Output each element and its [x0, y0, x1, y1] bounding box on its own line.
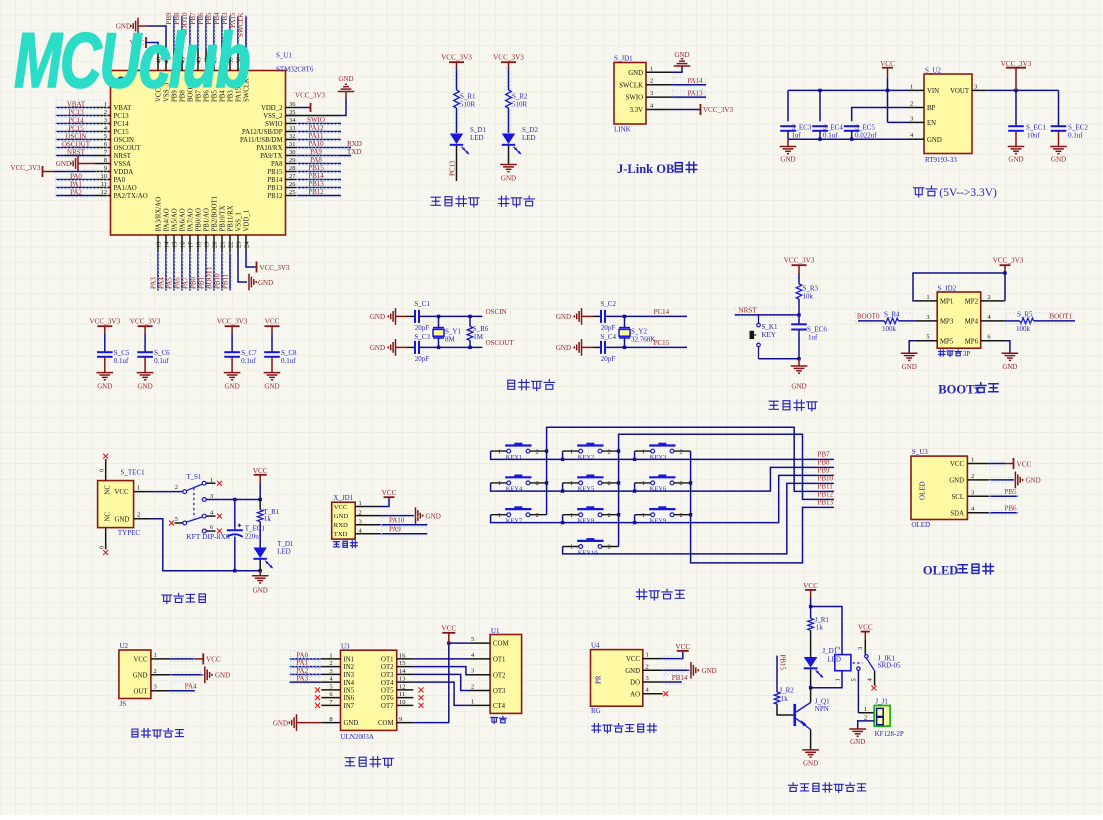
wire BOOT1: [1034, 320, 1075, 322]
wire OSCIN: [56, 139, 96, 141]
svg-text:PB12: PB12: [308, 188, 324, 196]
svg-text:13: 13: [399, 676, 406, 683]
svg-text:220uf: 220uf: [245, 533, 262, 541]
pin 8 GND: [321, 716, 358, 727]
svg-text:VDD_2: VDD_2: [261, 105, 283, 112]
svg-text:10: 10: [101, 173, 108, 180]
svg-text:2: 2: [608, 480, 611, 487]
connector X_JD1 body: [332, 502, 356, 539]
svg-text:VCC: VCC: [626, 656, 640, 663]
connector U1 body: [490, 635, 521, 714]
wire VDD_1 to power: [246, 251, 256, 267]
svg-text:2: 2: [835, 646, 842, 649]
svg-text:GND: GND: [556, 344, 571, 352]
svg-text:PB5: PB5: [1005, 488, 1018, 496]
LED T_D1: [253, 540, 294, 568]
svg-text:PB13: PB13: [818, 499, 834, 507]
svg-text:PA1/AO: PA1/AO: [114, 185, 137, 192]
svg-text:GND: GND: [1026, 477, 1041, 485]
wire PA8: [296, 163, 341, 165]
value socket: [491, 718, 498, 724]
svg-text:PA3: PA3: [150, 277, 158, 289]
svg-text:NRST: NRST: [738, 307, 757, 315]
pin 2 SWCLK: [619, 78, 672, 90]
pin 12 OT5: [381, 683, 413, 694]
svg-text:IN5: IN5: [344, 688, 355, 695]
pin 27 PB14: [267, 173, 296, 184]
svg-text:BP: BP: [927, 105, 936, 112]
svg-text:EN: EN: [927, 120, 936, 127]
wire PB0: [197, 251, 199, 291]
power flag VCC light: [675, 643, 690, 651]
svg-text:34: 34: [289, 117, 296, 124]
svg-text:GND: GND: [674, 51, 689, 59]
svg-text:PB14: PB14: [267, 177, 283, 184]
pin 2 GND: [334, 509, 381, 520]
svg-text:OT3: OT3: [493, 688, 506, 695]
pin 11 OT6: [381, 691, 413, 702]
wire row1 PB7: [491, 451, 834, 459]
svg-text:VCC: VCC: [253, 467, 268, 475]
svg-text:KEY7: KEY7: [506, 518, 523, 525]
svg-text:GND: GND: [902, 363, 917, 371]
svg-text:SWIO: SWIO: [307, 116, 325, 124]
svg-text:1k: 1k: [816, 623, 824, 631]
pin 21 PB10/TX: [220, 205, 227, 251]
svg-text:19: 19: [204, 242, 211, 249]
wire GND ir: [170, 674, 203, 676]
svg-text:BOOT1: BOOT1: [1050, 312, 1073, 320]
no-connect X switch 5: [169, 521, 174, 526]
pin 2 GND: [134, 512, 152, 519]
wire coil bottom: [811, 671, 842, 688]
svg-text:36: 36: [289, 101, 296, 108]
pin 3 OUT: [134, 684, 170, 696]
svg-text:GND: GND: [97, 382, 112, 390]
svg-text:VCC_3V3: VCC_3V3: [89, 318, 120, 326]
svg-text:OT1: OT1: [381, 657, 393, 664]
pin 1 VCC: [626, 652, 663, 664]
pin 2 OT3: [469, 684, 506, 696]
wire GND xjd1: [380, 515, 414, 517]
wire PB15 to J_R2: [776, 656, 778, 693]
svg-text:1: 1: [642, 480, 645, 487]
svg-text:MCUclub: MCUclub: [14, 17, 249, 105]
relay switch arm: [853, 655, 875, 671]
wire BP to S_EC5: [852, 108, 908, 122]
svg-text:S_TEC1: S_TEC1: [121, 469, 146, 477]
ground light: [691, 662, 717, 679]
push button KEY9: [642, 506, 683, 524]
power flag VCC oled: [1005, 458, 1031, 469]
svg-text:VCC: VCC: [265, 318, 280, 326]
svg-text:VCC: VCC: [206, 656, 221, 664]
power flag VCC_3V3 at J-Link pin 4: [701, 104, 734, 115]
push button KEY7: [498, 506, 539, 524]
resistor J_R2 1k: [774, 687, 794, 705]
svg-text:5: 5: [175, 516, 178, 523]
svg-text:LED: LED: [277, 548, 291, 556]
svg-text:RXD: RXD: [347, 140, 362, 148]
ground J_J1: [849, 729, 866, 746]
pin 0 shield top: [99, 459, 106, 481]
pin 1 VCC: [334, 500, 381, 511]
svg-text:U3: U3: [341, 643, 350, 651]
value KFT DIP-8X8: [186, 532, 230, 541]
svg-text:PA2: PA2: [70, 188, 82, 196]
pin 2 GND: [625, 663, 663, 675]
svg-text:OT7: OT7: [381, 703, 394, 710]
title programmable LED: [431, 197, 440, 205]
pin 13 PA3/RX/AO: [156, 197, 163, 251]
power flag VCC ir: [195, 653, 221, 664]
svg-text:X_JD1: X_JD1: [333, 494, 353, 502]
wire BOOT1: [213, 251, 215, 291]
pin 24 VDD_1: [244, 210, 251, 251]
wire NRST: [735, 299, 799, 324]
svg-text:COM: COM: [493, 641, 509, 648]
svg-text:NRST: NRST: [67, 148, 86, 156]
wire VCC node to T_R1: [259, 500, 261, 510]
pin 32 PA11/USB/DM: [240, 133, 296, 144]
wire VCC down: [259, 483, 261, 500]
capacitor S_EC2 0.1uf: [1051, 123, 1089, 139]
pin 4 3.3V: [630, 103, 672, 115]
IC U1 S_U1 STM32C8T6 body: [111, 71, 286, 236]
svg-text:VCC: VCC: [675, 643, 690, 651]
resistor J_R1 1k: [808, 616, 830, 631]
svg-text:IN1: IN1: [344, 657, 355, 664]
svg-text:1: 1: [650, 65, 653, 72]
power flag VCC relay: [803, 582, 818, 598]
ground under S_C5: [97, 357, 114, 391]
svg-text:GND: GND: [264, 382, 279, 390]
wire VDDA: [54, 171, 95, 173]
no-connect X IN7: [315, 703, 320, 708]
ground under S_EC1: [1008, 131, 1025, 164]
pin 41 PB5: [212, 50, 219, 102]
pin 46 PB9: [172, 50, 179, 102]
svg-text:AO: AO: [630, 691, 640, 698]
svg-text:IN2: IN2: [344, 664, 355, 671]
svg-text:PR: PR: [595, 675, 603, 684]
junction: [818, 89, 821, 92]
svg-text:OSCIN: OSCIN: [65, 132, 86, 140]
svg-text:2: 2: [471, 684, 474, 691]
svg-text:0.022uf: 0.022uf: [855, 131, 877, 139]
pin 3 IN3: [321, 668, 354, 679]
svg-text:PB14: PB14: [672, 674, 688, 682]
junction: [468, 315, 471, 318]
svg-text:PC15: PC15: [68, 124, 84, 132]
junction: [617, 449, 620, 452]
svg-text:PB14: PB14: [308, 172, 324, 180]
junction: [1003, 271, 1006, 274]
pin 1 VCC: [950, 457, 989, 469]
ground feeding S_C1: [370, 308, 407, 325]
svg-text:DO: DO: [630, 680, 640, 687]
svg-text:1: 1: [498, 480, 501, 487]
pin 20 PB2/BOOT1: [212, 196, 219, 251]
svg-text:OSCIN: OSCIN: [486, 308, 507, 316]
svg-text:VCC_3V3: VCC_3V3: [260, 264, 290, 272]
pin 4 SDA: [950, 506, 988, 518]
no-connect X switch 1: [217, 481, 222, 486]
pin 4 AO: [630, 687, 663, 699]
svg-text:S_EC3: S_EC3: [792, 123, 812, 131]
svg-text:PA0: PA0: [70, 172, 82, 180]
svg-text:PC14: PC14: [68, 116, 84, 124]
svg-text:PB2/BOOT1: PB2/BOOT1: [212, 196, 219, 232]
IC S_U2 RT9193-33 body: [924, 74, 972, 154]
wire KEY4 terminals: [491, 482, 547, 484]
svg-text:PC15: PC15: [654, 339, 670, 347]
svg-text:S_EC5: S_EC5: [855, 123, 875, 131]
wire KEY3 terminals: [635, 450, 691, 452]
svg-text:S_EC2: S_EC2: [1068, 123, 1088, 131]
svg-text:12: 12: [101, 189, 108, 196]
wire PB12: [296, 195, 341, 197]
svg-text:3.3V: 3.3V: [630, 107, 643, 114]
pin 6 MP6: [965, 334, 1005, 346]
pin 39 PB3: [228, 50, 235, 102]
wire contact pin 5 to J_J1: [851, 670, 875, 713]
connector S_JD1 J-Link: [614, 63, 646, 125]
title reset circuit: [769, 401, 778, 409]
junction: [561, 458, 564, 461]
wire VSS_2 to ground: [286, 92, 347, 116]
svg-text:COM: COM: [378, 720, 394, 727]
svg-text:5: 5: [329, 683, 332, 690]
pin 16 OT1: [381, 652, 413, 663]
junction: [561, 521, 564, 524]
svg-text:1uf: 1uf: [792, 131, 802, 139]
svg-text:GND: GND: [370, 344, 385, 352]
svg-text:3P: 3P: [963, 350, 971, 358]
wire PB14: [296, 179, 341, 181]
svg-text:2: 2: [359, 509, 362, 516]
svg-text:3: 3: [650, 90, 653, 97]
wire PA0: [290, 658, 322, 660]
wire VSS_1 to ground: [238, 251, 247, 282]
svg-text:GND: GND: [344, 720, 359, 727]
svg-text:8: 8: [104, 157, 107, 164]
wire emitter to ground: [810, 730, 812, 750]
wire PA9: [296, 155, 351, 157]
pin 33 PA12/USB/DP: [242, 125, 296, 136]
svg-text:GND: GND: [215, 672, 230, 680]
wire BOOT0: [858, 320, 884, 322]
svg-text:KFT DIP-8X8: KFT DIP-8X8: [186, 532, 230, 541]
svg-text:2: 2: [971, 473, 974, 480]
wire KEY10 row PB10: [563, 483, 834, 554]
svg-text:BOOTx: BOOTx: [938, 383, 981, 397]
svg-text:8: 8: [329, 716, 332, 723]
svg-text:VCC_3V3: VCC_3V3: [130, 318, 161, 326]
svg-text:KEY9: KEY9: [650, 518, 667, 525]
pin 6 IN6: [321, 691, 354, 702]
svg-text:GND: GND: [133, 672, 148, 679]
wire PB6: [989, 512, 1018, 514]
svg-text:SWIO: SWIO: [626, 95, 643, 102]
wire COM to VCC: [413, 643, 468, 723]
svg-text:PC14: PC14: [654, 308, 670, 316]
svg-text:GND: GND: [370, 313, 385, 321]
pin 1 VCC: [134, 652, 170, 664]
svg-text:S_Y1: S_Y1: [445, 328, 461, 336]
svg-text:IN7: IN7: [344, 703, 355, 710]
pin 4 TXD: [334, 528, 381, 539]
capacitor S_EC5 0.022uf: [844, 123, 877, 139]
svg-text:VDD_1: VDD_1: [244, 210, 251, 232]
wire OSCOUT: [56, 147, 96, 149]
wire PB7: [197, 16, 199, 51]
pin stub switch 1: [206, 482, 215, 484]
svg-text:IN4: IN4: [344, 680, 355, 687]
svg-text:GND: GND: [258, 279, 273, 287]
ground under S_EC3: [780, 139, 797, 163]
svg-text:9: 9: [104, 165, 107, 172]
wire PB8: [181, 16, 183, 51]
title light sensor module: [592, 724, 601, 733]
wire T_D1 to ground bus: [259, 560, 261, 571]
svg-text:VCC_3V3: VCC_3V3: [703, 106, 733, 114]
wire to S_C8: [271, 334, 273, 352]
svg-text:PA8: PA8: [310, 156, 322, 164]
svg-text:1k: 1k: [781, 695, 789, 703]
svg-text:GND: GND: [501, 175, 516, 183]
ground typec: [252, 571, 269, 595]
svg-text:2: 2: [175, 484, 178, 491]
svg-text:9: 9: [399, 716, 402, 723]
svg-text:T_EC1: T_EC1: [245, 525, 266, 533]
power flag VCC_3V3 output: [1001, 60, 1032, 90]
svg-text:GND: GND: [556, 313, 571, 321]
pin 13 OT4: [381, 676, 413, 687]
title power 5V to 3.3V: [914, 186, 997, 199]
svg-text:OT1: OT1: [493, 657, 505, 664]
no-connect X OT7: [419, 703, 424, 708]
title BOOTx settings: [938, 383, 998, 397]
pin 45 PB8: [180, 50, 187, 102]
wire OT3: [413, 674, 468, 690]
svg-text:2: 2: [650, 78, 653, 85]
pin 10 OT7: [381, 699, 413, 710]
svg-text:2: 2: [329, 660, 332, 667]
svg-text:STM32C8T6: STM32C8T6: [276, 66, 314, 74]
svg-text:2: 2: [646, 663, 649, 670]
pin 4 MP4: [965, 314, 1005, 326]
capacitor S_C1 20pF: [414, 300, 430, 332]
no-connect X pin 4: [871, 686, 876, 691]
svg-text:PA7: PA7: [182, 277, 190, 289]
capacitor T_EC 220uf polarized: [227, 524, 266, 541]
svg-text:LED: LED: [470, 134, 484, 142]
ground uln: [273, 714, 321, 731]
svg-text:27: 27: [289, 173, 296, 180]
pin 9 VDDA: [95, 165, 133, 176]
wire to capacitor T_EC: [234, 500, 236, 530]
svg-text:JS: JS: [120, 700, 127, 708]
svg-text:PA4: PA4: [185, 683, 197, 691]
svg-text:PA1: PA1: [70, 180, 82, 188]
wire J_D1 to collector node: [810, 668, 812, 687]
wire PB9: [173, 16, 175, 51]
no-connect X IN5: [315, 687, 320, 692]
power flag VCC_3V3 over S_C7: [217, 318, 248, 335]
svg-text:U2: U2: [120, 642, 129, 650]
junction: [809, 605, 812, 608]
svg-text:100k: 100k: [1016, 325, 1031, 333]
svg-text:PA10: PA10: [308, 140, 324, 148]
pin 0 shield bottom: [99, 528, 106, 550]
svg-text:GND: GND: [791, 383, 806, 391]
pin 3 RXD: [334, 518, 381, 529]
svg-text:MP5: MP5: [940, 338, 954, 345]
wire MP5 to ground: [909, 341, 915, 354]
pin 44 BOOT0: [188, 50, 195, 102]
power flag VCC_3V3 over S_C5: [89, 318, 120, 335]
svg-text:PA7/AO: PA7/AO: [188, 208, 195, 231]
svg-text:1uf: 1uf: [808, 334, 818, 342]
svg-text:1: 1: [570, 480, 573, 487]
svg-text:PB0/AO: PB0/AO: [196, 208, 203, 232]
wire PA1: [56, 187, 96, 189]
wire VCC ir: [170, 658, 195, 660]
svg-text:PA3: PA3: [296, 675, 308, 683]
svg-text:16: 16: [399, 652, 406, 659]
title relay control circuit: [789, 783, 798, 792]
svg-text:21: 21: [220, 242, 227, 249]
wire VCC_3V3 to S_R1: [456, 70, 458, 90]
pin 15 OT2: [381, 660, 413, 671]
terminal block J_J1 KF128-2P: [874, 706, 890, 727]
ground xjd1: [416, 507, 441, 524]
svg-text:MP3: MP3: [940, 319, 954, 326]
svg-text:SWIO: SWIO: [265, 121, 282, 128]
svg-text:PB9: PB9: [818, 467, 831, 475]
wire switch 3 to VCC node: [206, 499, 260, 501]
wire to S_C1: [407, 315, 415, 317]
svg-text:TXD: TXD: [347, 148, 361, 156]
wire PB13: [296, 187, 341, 189]
svg-text:1: 1: [971, 457, 974, 464]
svg-text:2: 2: [864, 714, 867, 721]
svg-text:SDA: SDA: [950, 510, 964, 517]
svg-text:PA9: PA9: [310, 148, 322, 156]
pin 18 PB0/AO: [196, 208, 203, 251]
wire PB14: [663, 681, 682, 683]
svg-text:KEY8: KEY8: [578, 518, 595, 525]
svg-text:S_JD2: S_JD2: [938, 285, 957, 293]
wire VCC oled: [989, 463, 1005, 465]
svg-text:S_C8: S_C8: [281, 349, 297, 357]
svg-text:26: 26: [289, 181, 296, 188]
svg-text:22: 22: [228, 242, 235, 249]
junction: [623, 315, 626, 318]
svg-text:VSS_2: VSS_2: [263, 113, 283, 120]
ground under MP6: [1002, 353, 1019, 371]
pin 2 IN2: [321, 660, 354, 671]
capacitor S_C5 0.1uf: [97, 349, 130, 365]
pin 1 VIN: [908, 83, 939, 95]
wire PA14: [672, 84, 706, 86]
wire to S_R3: [798, 273, 800, 284]
junction: [437, 315, 440, 318]
capacitor S_EC4 0.1uf: [812, 123, 843, 139]
pin 4 PC15: [95, 125, 129, 136]
junction: [689, 481, 692, 484]
